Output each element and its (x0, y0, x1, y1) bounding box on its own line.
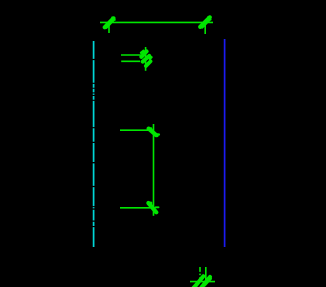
wire vertical at pair junction (145, 47, 147, 71)
wire bottom horizontal (190, 281, 215, 283)
bus/centerline left (cyan dash-dot vertical) (93, 41, 95, 247)
wire lower horizontal (120, 207, 154, 209)
node G tick (slash on bottom wire) (201, 277, 211, 287)
wire middle horizontal (120, 129, 154, 131)
node D tick (backslash at middle junction) (149, 129, 160, 136)
wire stub above node G (205, 267, 207, 281)
bus right (blue solid vertical) (224, 39, 226, 247)
node B tick (slash upper-right junction) (200, 17, 210, 27)
wire stub below node B (204, 22, 206, 34)
wire top horizontal (100, 21, 213, 23)
node C ticks (double slash on vertical) (141, 51, 152, 66)
wire pair lower (121, 60, 140, 62)
node A tick (slash upper-left junction) (105, 17, 115, 27)
wire pair upper (121, 54, 145, 56)
wire stub below node A (108, 22, 110, 33)
wire long vertical (153, 124, 155, 216)
node E tick (backslash at lower junction) (148, 203, 158, 213)
wire stub dashed above node F (199, 267, 201, 281)
node F tick (slash on bottom wire) (193, 276, 203, 287)
